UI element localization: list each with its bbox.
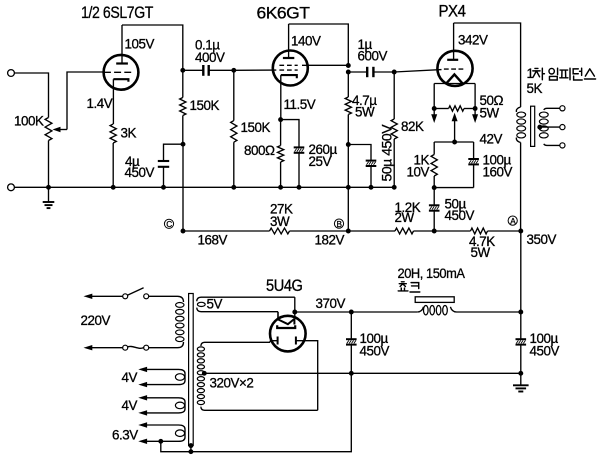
svg-text:50µ 450V: 50µ 450V	[378, 124, 394, 182]
node B junction	[346, 229, 351, 234]
svg-text:PX4: PX4	[439, 2, 466, 20]
wire: U1 plate to coupling node	[122, 25, 183, 70]
wire: node B riser crossing ground rail	[347, 145, 349, 232]
svg-text:6K6GT: 6K6GT	[257, 4, 311, 22]
wire: node A down to choke output	[520, 231, 522, 312]
node: bias bottom junction	[432, 185, 437, 190]
wire: U4 right plate return to HV bottom	[305, 341, 317, 411]
U1 cathode	[113, 79, 128, 124]
svg-text:5W: 5W	[355, 105, 375, 120]
wire: bias network bottom	[434, 187, 473, 189]
capacitor 4u 450V (decoupling)	[125, 144, 184, 187]
node: HV center tap	[202, 371, 207, 376]
capacitor 1u 600V (coupling to PX4)	[348, 37, 394, 77]
capacitor 100u 450V (input filter)	[346, 310, 389, 374]
node: choke output at B+	[518, 310, 523, 315]
svg-text:350V: 350V	[527, 232, 557, 247]
U4 filament	[277, 312, 295, 328]
svg-text:320V×2: 320V×2	[210, 376, 254, 391]
pentode U2 6K6GT envelope	[273, 51, 308, 86]
U1 grid (dashed)	[104, 71, 131, 73]
lower ground rail (center tap to right ground)	[204, 372, 521, 374]
svg-text:160V: 160V	[483, 165, 513, 180]
U3 filament (directly heated)	[434, 74, 475, 108]
svg-text:3W: 3W	[270, 214, 290, 229]
wire: core to ground bus	[190, 446, 192, 452]
node: riser at ground rail	[346, 185, 351, 190]
node: 800ohm at ground rail	[278, 185, 283, 190]
node: PX4 grid junction	[392, 70, 397, 75]
node: U2 cathode junction 11.5V	[278, 117, 283, 122]
U3 grid (dashed)	[444, 68, 463, 70]
U2 plate	[283, 24, 294, 58]
node: 370V rectifier output	[292, 310, 297, 315]
B+ chain rail (node C to node A)	[183, 230, 521, 232]
svg-text:150K: 150K	[241, 120, 271, 135]
input terminal J1 hot	[8, 70, 15, 77]
svg-text:100K: 100K	[14, 113, 44, 128]
ground symbol (power supply)	[513, 373, 529, 391]
node: secondary tap	[537, 125, 542, 130]
svg-text:10V: 10V	[407, 165, 430, 180]
svg-text:220V: 220V	[81, 313, 111, 328]
label choke (Korean)	[398, 282, 420, 292]
resistor 4.7u[sic] 5W (U2 plate load to node B)	[345, 72, 377, 145]
svg-text:182V: 182V	[315, 232, 345, 247]
resistor 150K (6K6 grid leak)	[231, 70, 271, 187]
T1 HV winding 320Vx2	[197, 342, 317, 410]
svg-text:C: C	[166, 220, 172, 229]
triode U3 PX4 envelope	[437, 51, 472, 86]
svg-text:600V: 600V	[358, 49, 388, 64]
svg-text:150K: 150K	[190, 98, 220, 113]
svg-text:5W: 5W	[471, 245, 491, 260]
node: 3K at ground rail	[111, 185, 116, 190]
capacitor 50u 450V (node B decoupling)	[348, 124, 394, 188]
node: 260u at ground rail	[297, 185, 302, 190]
node: 100u input filter at rail	[349, 371, 354, 376]
svg-text:342V: 342V	[458, 33, 488, 48]
svg-text:400V: 400V	[195, 50, 225, 65]
U4 plate left	[270, 337, 278, 345]
wire: 370V line to choke	[295, 311, 418, 313]
speaker terminal bottom	[560, 143, 565, 148]
svg-text:11.5V: 11.5V	[284, 97, 316, 112]
svg-text:450V: 450V	[445, 208, 475, 223]
resistor 150K (U1 plate load)	[180, 70, 220, 144]
potentiometer 100K (volume)	[14, 113, 52, 187]
node label C (circled)	[164, 219, 173, 229]
rectifier U4 5U4G envelope	[270, 316, 306, 352]
svg-text:140V: 140V	[291, 33, 321, 48]
node: core ground top	[188, 443, 193, 448]
wire: bias network top	[434, 141, 473, 143]
node: 4.7 bottom / 50u junction	[346, 142, 351, 147]
svg-text:5W: 5W	[480, 105, 500, 120]
capacitor 260u 25V (U2 cathode bypass)	[281, 120, 338, 188]
U1 plate	[116, 25, 128, 64]
node: 50u at B+ chain rail	[432, 229, 437, 234]
svg-text:20H, 150mA: 20H, 150mA	[398, 266, 465, 281]
svg-text:105V: 105V	[125, 36, 155, 51]
output transformer T2 primary	[516, 107, 525, 143]
node label A (circled)	[508, 216, 517, 226]
svg-text:3K: 3K	[121, 125, 137, 140]
capacitor 100u 160V (bias bypass)	[468, 142, 512, 188]
triode U1 1/2 6SL7GT envelope	[104, 55, 139, 90]
U2 control grid (dashed)	[279, 69, 297, 71]
capacitor 0.1u 400V (coupling)	[183, 37, 234, 76]
wire: 5V bottom lead into filament left	[277, 312, 279, 320]
svg-text:2W: 2W	[395, 210, 415, 225]
node: pot ground	[46, 185, 51, 190]
wire: input hot terminal to 100K pot top	[14, 73, 48, 118]
svg-text:1/2 6SL7GT: 1/2 6SL7GT	[81, 4, 153, 22]
node: plate/coupling junction	[346, 70, 351, 75]
node: 6.3V lead to ground bus	[158, 439, 163, 444]
wire: to PX4 grid	[394, 70, 441, 72]
node: 150K bottom / 4u cap junction	[181, 142, 186, 147]
svg-text:5V: 5V	[207, 297, 223, 312]
wire: U2 plate to plate node	[289, 24, 349, 66]
speaker terminal top	[560, 106, 565, 111]
node: 150K grid leak at ground rail	[231, 185, 236, 190]
node: wiper / bias network top 42V	[452, 140, 457, 145]
node: right ground junction	[518, 371, 523, 376]
wire: OPT primary bottom to node A	[520, 143, 522, 232]
node A junction 350V	[518, 229, 523, 234]
node: 4u cap at ground rail	[161, 185, 166, 190]
svg-text:82K: 82K	[401, 119, 424, 134]
svg-text:450V: 450V	[530, 343, 560, 358]
node: 50u at ground rail	[369, 185, 374, 190]
mains switch lower (blade)	[123, 345, 149, 350]
node: 82K at ground rail end	[392, 185, 397, 190]
hum pot wiper arrow	[452, 113, 458, 142]
T1 5V winding (rectifier filament)	[197, 297, 295, 312]
node: U1 plate / 0.1u / 150K junction	[180, 68, 185, 73]
U4 plate right	[296, 337, 306, 345]
wire: to 6K6 grid	[234, 69, 276, 71]
svg-text:4V: 4V	[122, 370, 138, 385]
U2 cathode	[281, 75, 297, 120]
T2 secondary with taps	[539, 108, 560, 145]
svg-text:42V: 42V	[480, 132, 503, 147]
T1 core	[189, 294, 194, 446]
capacitor 100u 450V (output filter)	[516, 312, 560, 373]
svg-text:450V: 450V	[125, 165, 155, 180]
T1 4V winding #1 (PX4 filament)	[122, 367, 186, 388]
resistor 1K 10V (bias)	[407, 142, 438, 188]
U2 screen grid (dashed)	[279, 64, 297, 66]
capacitor 50u 450V (PX4 cathode to rail)	[429, 188, 475, 231]
wire: U2 screen to plate node (triode strap)	[302, 64, 348, 66]
ground rail wire (input to 82K)	[14, 186, 394, 188]
svg-text:800Ω: 800Ω	[244, 143, 275, 158]
node C junction	[181, 229, 186, 234]
filament supply arrow left (to 4V winding)	[431, 109, 437, 124]
mains switch upper (open)	[123, 288, 149, 299]
node: 6K6 grid junction	[231, 68, 236, 73]
node label B (circled)	[334, 219, 343, 229]
node: core ground at bus	[188, 449, 193, 454]
wire: decoupling node down to node C rail (crosses ground rail)	[182, 144, 184, 231]
svg-text:168V: 168V	[198, 232, 228, 247]
wire: U4 left plate to HV top	[269, 341, 271, 343]
svg-text:4V: 4V	[122, 398, 138, 413]
resistor 800ohm (U2 cathode)	[244, 120, 284, 188]
ground symbol (input section)	[43, 187, 55, 208]
filament supply arrow right (to 4V winding)	[472, 109, 478, 124]
node: filament left at pot	[432, 106, 437, 111]
resistor 82K (PX4 grid leak)	[391, 72, 424, 187]
svg-text:1.4V: 1.4V	[87, 96, 113, 111]
resistor 4.7K 5W	[469, 228, 495, 260]
resistor 27K 3W	[270, 201, 293, 234]
node: filament right at pot	[473, 106, 478, 111]
hum balance pot 50ohm 5W	[434, 93, 503, 120]
T1 4V winding #2	[122, 395, 186, 416]
U3 plate	[447, 23, 458, 60]
svg-text:370V: 370V	[316, 296, 346, 311]
speaker terminal mid	[560, 125, 565, 130]
input terminal J1 ground	[8, 184, 15, 191]
svg-text:450V: 450V	[360, 343, 390, 358]
wire: 5V top lead down to 370V node	[294, 297, 296, 312]
svg-text:25V: 25V	[309, 154, 332, 169]
wiper arrow of 100K pot and wire to 6SL7 grid	[53, 72, 104, 132]
resistor 1.2K 2W	[395, 200, 421, 234]
svg-text:5U4G: 5U4G	[266, 277, 303, 295]
power transformer T1 primary 220V winding	[149, 296, 184, 347]
choke 20H 150mA	[398, 266, 521, 315]
bottom ground bus wire	[161, 373, 351, 451]
svg-text:1: 1	[527, 66, 534, 81]
AC mains arrows 220V	[84, 294, 123, 351]
node: screen strap junction	[346, 63, 351, 68]
svg-text:6.3V: 6.3V	[112, 428, 138, 443]
T1 6.3V winding	[112, 422, 185, 444]
svg-text:5K: 5K	[527, 81, 543, 96]
label primary impedance (Korean) 1cha impedance	[527, 66, 596, 81]
T2 core	[531, 106, 535, 146]
wire: U3 plate to B+ rail and OPT primary	[454, 23, 521, 107]
resistor 3K (U1 cathode)	[110, 124, 136, 187]
